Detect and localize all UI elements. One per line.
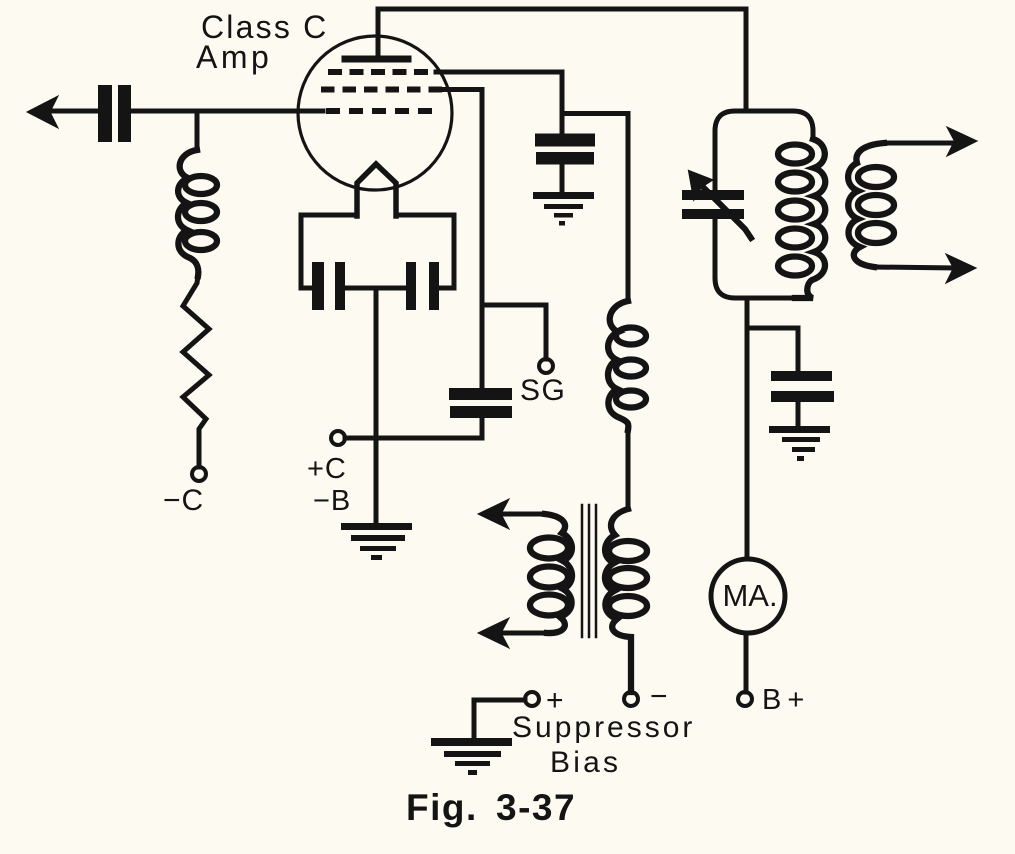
input arrow [27, 96, 58, 128]
control grid (dashed) [326, 108, 433, 114]
tube V1 envelope [298, 36, 452, 190]
ground under C2 [533, 192, 594, 226]
wire branch to bypass cap [747, 328, 798, 371]
control grid wire [44, 109, 98, 114]
svg-text:MA.: MA. [722, 578, 777, 613]
suppressor grid wire to bypass [436, 72, 562, 134]
suppressor choke L2 [608, 301, 628, 430]
wire screen cap to bias terminal [345, 418, 482, 438]
wire meter to B+ [744, 633, 749, 692]
wire choke to transformer [626, 430, 631, 509]
plate of V1 [345, 56, 408, 63]
meter MA [711, 559, 785, 633]
wire plate to tank top [378, 9, 746, 111]
grid resistor R1 [183, 276, 209, 467]
suppressor bypass capacitor C2 [535, 134, 595, 165]
svg-text:Bias: Bias [550, 746, 621, 779]
primary top lead with arrow [500, 512, 545, 517]
grid coil L1 [178, 150, 198, 276]
transformer secondary coil [605, 509, 631, 692]
transformer core [581, 505, 584, 637]
screen grid (dashed) [321, 87, 442, 93]
ground under plate bypass [769, 426, 830, 461]
svg-text:−C: −C [163, 484, 204, 517]
filament circuit box [301, 215, 454, 288]
screen bypass capacitor plates [449, 388, 512, 418]
variable capacitor plates [682, 190, 744, 219]
filament bypass capacitor C3 plates [312, 262, 345, 310]
terminal SG [539, 359, 553, 373]
terminal +C -B [331, 431, 345, 445]
ground under filament [341, 523, 412, 560]
terminal B+ [738, 692, 752, 706]
screen grid wire down [444, 90, 482, 389]
ground under suppressor plus [431, 738, 512, 775]
svg-text:−B: −B [313, 485, 351, 517]
terminal -C [192, 467, 206, 481]
output coil L4 [848, 143, 884, 267]
wire junction to choke [562, 114, 628, 302]
svg-text:Suppressor: Suppressor [512, 711, 695, 744]
wire to SG terminal [482, 305, 546, 359]
svg-text:−: − [650, 680, 668, 713]
cathode filament of V1 [357, 164, 396, 216]
suppressor grid (dashed) [328, 69, 434, 75]
coupling capacitor plates [98, 85, 131, 142]
transformer primary coil [545, 514, 572, 633]
output bottom lead with arrow [874, 267, 955, 268]
plate bypass capacitor plates [771, 371, 834, 402]
wire tank bottom to meter [745, 298, 750, 557]
wire junction grid to coil [195, 111, 200, 150]
primary bottom lead with arrow [500, 631, 547, 636]
svg-text:Amp: Amp [196, 39, 272, 75]
output top lead with arrow [884, 141, 955, 146]
wire plus terminal to ground [474, 700, 525, 740]
tank coil L3 [795, 139, 825, 298]
variable capacitor arrow [697, 181, 751, 238]
svg-text:SG: SG [520, 374, 566, 407]
svg-text:+C: +C [307, 453, 347, 485]
terminal plus [525, 692, 539, 706]
svg-text:B+: B+ [762, 684, 810, 716]
svg-text:Fig. 3-37: Fig. 3-37 [406, 787, 576, 828]
tank circuit box [715, 111, 813, 298]
terminal minus [624, 692, 638, 706]
filament center tap wire [374, 288, 379, 525]
filament bypass capacitor C4 plates [406, 262, 439, 310]
